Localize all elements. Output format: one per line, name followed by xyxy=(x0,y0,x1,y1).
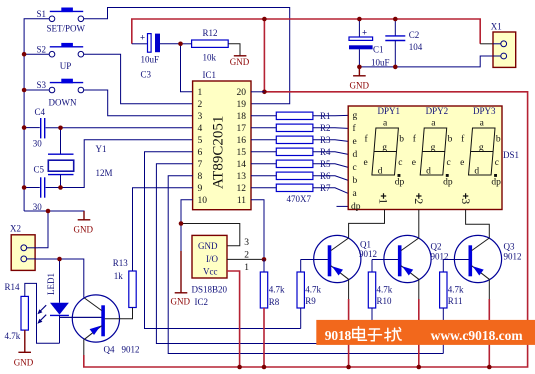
junction C2 top xyxy=(393,17,398,22)
wire IC1 pin6 to R9 bottom xyxy=(145,152,301,329)
wire R7 to display a xyxy=(313,188,348,194)
junction VCC rail Q3 xyxy=(487,365,492,370)
junction C3 node xyxy=(178,42,183,47)
wire DPY3 common to Q3 collector xyxy=(466,210,490,239)
wire R5 stub xyxy=(251,163,276,165)
svg-text:19: 19 xyxy=(237,100,247,110)
wire C3/R12 node down to IC1 pin1 xyxy=(181,44,193,92)
svg-text:1: 1 xyxy=(198,88,203,98)
wire R1 stub xyxy=(251,115,276,117)
svg-text:R3: R3 xyxy=(320,135,331,145)
resistor R14 4.7k xyxy=(5,282,29,341)
resistor R1 470 xyxy=(276,112,313,119)
svg-text:4.7k: 4.7k xyxy=(5,331,21,341)
svg-text:S2: S2 xyxy=(37,44,47,54)
capacitor C2 104 xyxy=(385,19,423,67)
svg-text:+: + xyxy=(140,33,145,43)
svg-text:DPY2: DPY2 xyxy=(426,106,449,116)
wire IC1 pin9 to R13 top xyxy=(133,188,193,271)
display DS1 box xyxy=(348,106,519,212)
wire R3 stub xyxy=(251,139,276,141)
wire R6 to display b xyxy=(313,176,348,181)
svg-text:Q4: Q4 xyxy=(104,344,115,354)
svg-text:2: 2 xyxy=(198,100,203,110)
svg-text:5: 5 xyxy=(198,136,203,146)
svg-text:R12: R12 xyxy=(203,28,218,38)
svg-text:c: c xyxy=(447,158,451,168)
svg-text:C1: C1 xyxy=(373,44,384,54)
wire DPY2 common to Q2 collector xyxy=(418,210,420,239)
svg-text:C3: C3 xyxy=(141,70,152,80)
wire DS18B20 Vcc to VCC rail xyxy=(227,271,240,367)
wire S2 left xyxy=(24,53,49,55)
ground C1 GND xyxy=(350,67,370,91)
svg-text:dp: dp xyxy=(395,177,405,187)
svg-text:IC2: IC2 xyxy=(195,297,209,307)
svg-text:DPY1: DPY1 xyxy=(378,106,401,116)
display digit DPY2 xyxy=(412,118,453,187)
svg-text:3: 3 xyxy=(459,198,473,204)
svg-text:DS1: DS1 xyxy=(503,150,519,160)
display digit DPY1 xyxy=(364,118,405,187)
svg-text:R10: R10 xyxy=(377,296,393,306)
svg-text:b: b xyxy=(399,135,404,145)
svg-text:b: b xyxy=(353,176,358,186)
wire ground branch xyxy=(48,211,84,218)
svg-text:S1: S1 xyxy=(37,9,47,19)
watermark banner 9018 xyxy=(316,320,535,345)
svg-text:16: 16 xyxy=(237,136,247,146)
wire Q3 emitter red xyxy=(488,299,490,367)
capacitor C3 10uF xyxy=(132,33,181,80)
svg-text:1k: 1k xyxy=(114,271,124,281)
ground rail GND xyxy=(74,211,94,235)
crystal Y1 12M xyxy=(48,128,113,188)
resistor R9 4.7k xyxy=(297,260,321,309)
wire Q2 emitter to VCC rail xyxy=(418,279,420,299)
svg-text:c: c xyxy=(398,158,402,168)
junction VCC rail Q1 xyxy=(346,365,351,370)
svg-text:9012: 9012 xyxy=(504,251,522,261)
resistor R12 10k xyxy=(181,28,229,62)
svg-text:12: 12 xyxy=(237,184,247,194)
svg-text:R14: R14 xyxy=(5,282,21,292)
wire R5 to display c xyxy=(313,164,348,168)
wire R1 to display g xyxy=(313,114,348,116)
svg-text:10k: 10k xyxy=(203,52,217,62)
ground R12 GND xyxy=(230,56,250,67)
display digit DPY3 xyxy=(460,118,501,187)
svg-text:470X7: 470X7 xyxy=(287,194,312,204)
svg-text:g: g xyxy=(353,111,358,121)
wire R11 top to Q3 base xyxy=(443,259,468,261)
svg-text:3: 3 xyxy=(198,112,203,122)
svg-text:6: 6 xyxy=(198,148,203,158)
resistor R13 1k xyxy=(113,258,136,308)
svg-text:GND: GND xyxy=(14,357,34,367)
junction VCC top at pin20 drop xyxy=(262,17,267,22)
wire R8 bottom to VCC rail xyxy=(263,308,265,367)
resistor R8 4.7k xyxy=(260,259,285,308)
svg-text:GND: GND xyxy=(198,241,218,251)
svg-text:20: 20 xyxy=(237,88,247,98)
ground R14 GND xyxy=(14,352,34,367)
switch S2 UP xyxy=(37,43,84,71)
junction I/O node xyxy=(262,257,267,262)
op-amp IC1 AT89C2051 box xyxy=(193,70,251,210)
svg-text:104: 104 xyxy=(409,42,423,52)
wire R12 right to ground xyxy=(228,44,240,56)
capacitor C4 30 xyxy=(33,107,46,149)
svg-text:GND: GND xyxy=(171,297,191,307)
svg-text:4.7k: 4.7k xyxy=(448,285,464,295)
svg-text:C4: C4 xyxy=(35,107,46,117)
svg-text:15: 15 xyxy=(237,148,247,158)
junction rail S2 xyxy=(22,52,27,57)
wire IC1 pin10 to ground and DS18B20 pin3 xyxy=(181,200,193,224)
display common pin 2 symbol xyxy=(412,193,426,204)
wire S3 right down to IC1 pin3 xyxy=(84,90,193,116)
svg-text:11: 11 xyxy=(237,196,246,206)
svg-text:13: 13 xyxy=(237,172,247,182)
svg-text:+: + xyxy=(362,28,367,38)
svg-text:d: d xyxy=(378,166,383,176)
junction VCC rail DS18B20 xyxy=(237,365,242,370)
svg-text:8: 8 xyxy=(198,172,203,182)
resistor R2 470 xyxy=(276,124,313,131)
wire R4 to display d xyxy=(313,152,348,155)
svg-text:R7: R7 xyxy=(320,183,331,193)
svg-text:dp: dp xyxy=(443,177,453,187)
svg-text:R13: R13 xyxy=(113,258,129,268)
svg-text:10uF: 10uF xyxy=(141,55,160,65)
wire Q1 emitter red xyxy=(348,299,350,367)
junction pin20 VCC xyxy=(262,90,267,95)
svg-text:4.7k: 4.7k xyxy=(269,285,285,295)
svg-text:18: 18 xyxy=(237,112,247,122)
svg-text:4.7k: 4.7k xyxy=(305,285,321,295)
junction VCC rail Q2 xyxy=(417,365,422,370)
switch S3 DOWN xyxy=(37,79,84,108)
svg-text:R1: R1 xyxy=(320,111,331,121)
svg-text:g: g xyxy=(479,143,484,153)
svg-text:SET/POW: SET/POW xyxy=(47,24,86,34)
wire C4 left xyxy=(24,127,40,129)
junction C2 bottom xyxy=(393,65,398,70)
svg-text:10uF: 10uF xyxy=(371,57,390,67)
svg-text:e: e xyxy=(460,158,464,168)
wire R9 top to Q1 base xyxy=(301,259,328,261)
wire Q3 emitter to VCC rail xyxy=(488,279,490,299)
svg-text:X2: X2 xyxy=(10,224,21,234)
transistor Q4 9012 xyxy=(60,295,140,354)
svg-text:R6: R6 xyxy=(320,171,331,181)
wire rail bottom to X2 pin1 and ground branch xyxy=(24,211,48,248)
wire R4 stub xyxy=(251,151,276,153)
svg-text:b: b xyxy=(496,135,501,145)
wire S3 left xyxy=(24,89,49,91)
junction rail S3 xyxy=(22,88,27,93)
wire Q2 emitter red xyxy=(418,299,420,367)
wire IC1 pin7 to R10 bottom xyxy=(156,164,372,344)
svg-text:X1: X1 xyxy=(491,22,502,32)
svg-text:Y1: Y1 xyxy=(96,144,107,154)
wire R13 bottom to Q4 base xyxy=(105,308,133,319)
capacitor C5 30 xyxy=(33,165,45,212)
junction rail C4 xyxy=(22,125,27,130)
svg-text:4.7k: 4.7k xyxy=(377,285,393,295)
wire R2 to display f xyxy=(313,127,348,130)
transistor Q2 9012 xyxy=(372,235,449,282)
svg-text:Q3: Q3 xyxy=(504,242,515,252)
wire IC1 pin20 stub xyxy=(251,91,264,93)
wire display dp stub xyxy=(337,205,349,207)
wire S2 right down to IC1 pin2 xyxy=(84,54,193,104)
resistor R10 4.7k xyxy=(368,260,392,309)
resistor R4 470 xyxy=(276,148,313,155)
svg-text:9018: 9018 xyxy=(325,328,352,343)
ground IC2 GND xyxy=(171,224,191,307)
junction C1 bottom xyxy=(357,65,362,70)
wire C5 left xyxy=(24,187,40,189)
junction VCC rail R8 xyxy=(262,365,267,370)
junction X2 pin2 node xyxy=(57,257,62,262)
svg-text:12M: 12M xyxy=(96,168,113,178)
wire R7 stub xyxy=(251,187,276,189)
svg-text:g: g xyxy=(431,143,436,153)
wire C5 right up to IC1 pin5 xyxy=(46,140,193,188)
wire IC1 pin11 to DS18B20 I/O junction xyxy=(251,200,264,260)
wire Q1 emitter to VCC rail xyxy=(348,279,350,299)
resistor R5 470 xyxy=(276,160,313,167)
junction rail X2 xyxy=(46,209,51,214)
svg-text:d: d xyxy=(353,150,358,160)
svg-text:14: 14 xyxy=(237,160,247,170)
svg-text:17: 17 xyxy=(237,124,247,134)
junction rail C5 xyxy=(22,185,27,190)
wire LED cathode to Q4 base xyxy=(60,316,102,318)
svg-text:c: c xyxy=(353,163,357,173)
junction C4 right xyxy=(58,126,63,131)
wire S1 right up over to IC1 pin19 xyxy=(84,8,290,104)
svg-text:1: 1 xyxy=(244,263,249,273)
display common pin 1 symbol xyxy=(377,193,391,204)
svg-text:IC1: IC1 xyxy=(203,70,217,80)
junction C1 top xyxy=(357,17,362,22)
svg-text:g: g xyxy=(382,143,387,153)
svg-text:b: b xyxy=(448,135,453,145)
connector X1 xyxy=(491,22,516,68)
svg-text:DOWN: DOWN xyxy=(49,98,77,108)
svg-text:GND: GND xyxy=(230,57,250,67)
wire junction right to Q4 collector xyxy=(60,259,84,298)
svg-text:e: e xyxy=(353,137,357,147)
LED LED1 xyxy=(37,259,69,343)
wire VCC top rail xyxy=(132,19,480,44)
svg-text:S3: S3 xyxy=(37,80,47,90)
wire node to DS18B20 pin3 xyxy=(181,224,240,246)
svg-text:DS18B20: DS18B20 xyxy=(192,285,228,295)
svg-text:Q2: Q2 xyxy=(431,242,442,252)
svg-text:9012: 9012 xyxy=(359,249,377,259)
svg-text:R8: R8 xyxy=(269,297,280,307)
svg-text:R5: R5 xyxy=(320,159,331,169)
wire R14 bottom to ground xyxy=(24,330,26,352)
wire R9 bottom xyxy=(300,308,302,329)
wire IC1 pin8 to R11 bottom xyxy=(168,176,443,354)
svg-text:GND: GND xyxy=(74,225,94,235)
wire S1 left to rail xyxy=(24,19,49,211)
wire R11 bottom xyxy=(442,308,444,354)
svg-text:Q1: Q1 xyxy=(360,239,371,249)
svg-text:GND: GND xyxy=(350,81,370,91)
wire DS18B20 I/O to R8 junction xyxy=(227,258,264,260)
junction C5 right xyxy=(58,185,63,190)
svg-text:d: d xyxy=(474,166,479,176)
svg-text:R4: R4 xyxy=(320,147,331,157)
wire VCC mid rail to right edge down to bottom rail xyxy=(84,92,528,367)
svg-text:AT89C2051: AT89C2051 xyxy=(211,116,227,189)
op-amp IC2 DS18B20 box xyxy=(192,235,250,307)
wire VCC drop to IC1 pin20 xyxy=(263,19,265,92)
svg-text:dp: dp xyxy=(351,202,361,212)
transistor Q3 9012 xyxy=(443,235,521,282)
wire C4 right to IC1 pin4 xyxy=(46,127,193,129)
svg-text:4: 4 xyxy=(198,124,203,134)
svg-text:c: c xyxy=(495,158,499,168)
connector X2 xyxy=(10,224,38,271)
svg-text:R2: R2 xyxy=(320,123,331,133)
svg-text:7: 7 xyxy=(198,160,203,170)
wire X2 pin2 to junction xyxy=(35,258,59,260)
svg-text:www.c9018.com: www.c9018.com xyxy=(431,328,524,343)
svg-text:10: 10 xyxy=(198,196,208,206)
wire X1 pin1 xyxy=(480,43,493,45)
resistor R7 470 xyxy=(276,184,313,191)
svg-text:e: e xyxy=(364,158,368,168)
wire R10 top to Q2 base xyxy=(372,259,398,261)
svg-text:1: 1 xyxy=(377,198,391,204)
svg-text:C2: C2 xyxy=(409,30,420,40)
svg-text:C5: C5 xyxy=(34,165,45,175)
resistor R11 4.7k xyxy=(440,260,464,309)
wire R2 stub xyxy=(251,127,276,129)
wire Q4 emitter to VCC rail xyxy=(83,339,85,355)
svg-text:I/O: I/O xyxy=(206,254,218,264)
wire DPY1 common to Q1 collector xyxy=(349,210,385,239)
junction pin10 node xyxy=(179,221,184,226)
svg-text:dp: dp xyxy=(491,177,501,187)
wire LED cathode to R14 top xyxy=(25,283,60,343)
wire R3 to display e xyxy=(313,140,348,142)
transistor Q1 9012 xyxy=(301,235,377,282)
svg-text:2: 2 xyxy=(412,198,426,204)
svg-text:d: d xyxy=(426,166,431,176)
capacitor C1 10uF xyxy=(349,19,390,67)
resistor R3 470 xyxy=(276,136,313,143)
display common pin 3 symbol xyxy=(459,193,473,204)
wire C1 C2 bottom to X1 pin2 xyxy=(359,56,493,67)
wire R6 stub xyxy=(251,175,276,177)
svg-text:R11: R11 xyxy=(448,296,463,306)
switch S1 SET/POW xyxy=(37,8,86,34)
svg-text:LED1: LED1 xyxy=(46,273,56,295)
svg-text:e: e xyxy=(412,158,416,168)
svg-text:R9: R9 xyxy=(305,296,316,306)
svg-text:9012: 9012 xyxy=(122,344,140,354)
svg-text:DPY3: DPY3 xyxy=(473,106,496,116)
svg-text:3: 3 xyxy=(244,238,249,248)
resistor R6 470 xyxy=(276,172,313,179)
wire R10 bottom xyxy=(371,308,373,344)
svg-text:9: 9 xyxy=(198,184,203,194)
svg-text:UP: UP xyxy=(60,61,72,71)
svg-text:30: 30 xyxy=(33,138,43,148)
svg-text:Vcc: Vcc xyxy=(203,267,218,277)
